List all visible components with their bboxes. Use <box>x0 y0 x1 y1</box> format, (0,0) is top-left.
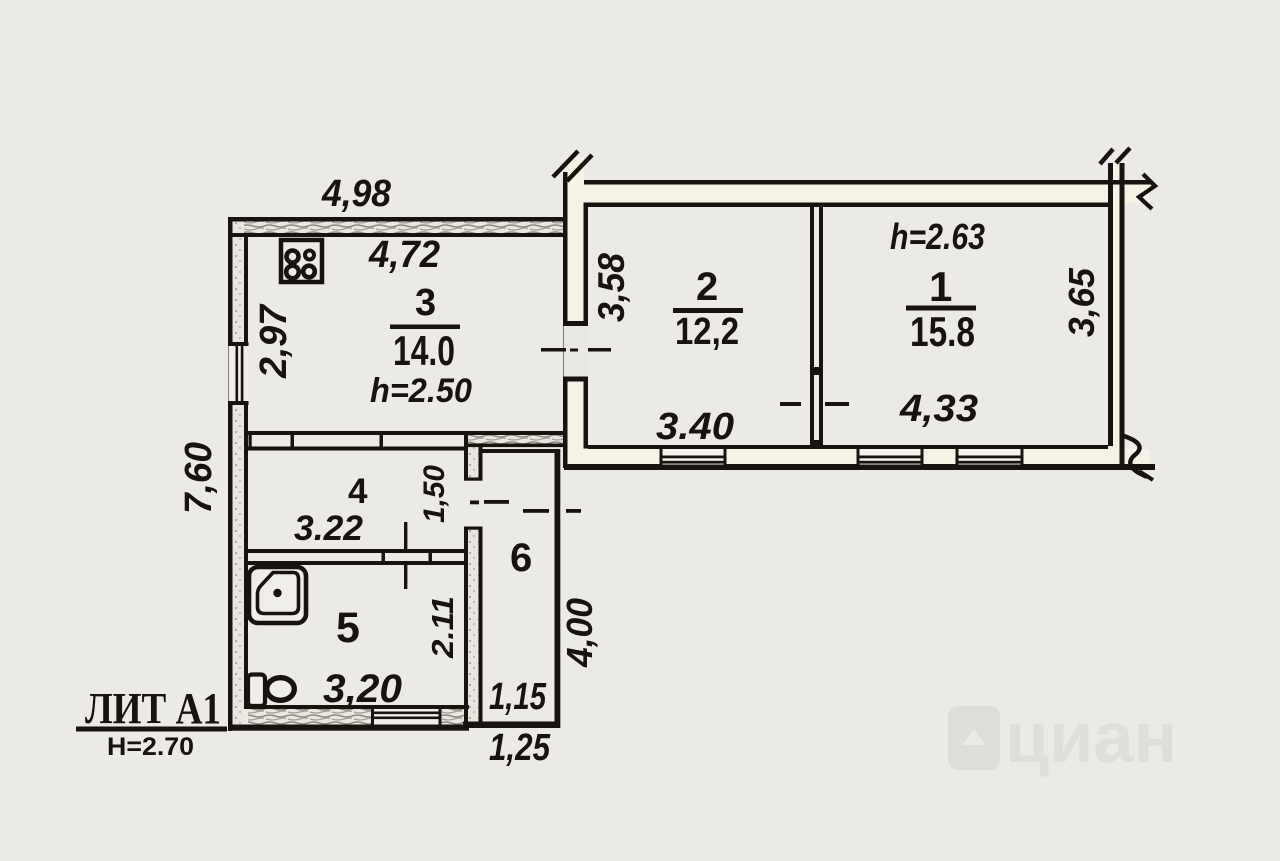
room 6 left wall fill <box>467 434 479 724</box>
bottom wall window white <box>373 709 441 725</box>
svg-text:3.40: 3.40 <box>656 406 734 448</box>
section line x405 lower <box>404 565 407 589</box>
divider 3/4 hatched right part fill <box>466 435 564 444</box>
svg-text:3: 3 <box>415 282 436 324</box>
bottom wall outer line <box>564 464 1155 470</box>
divider 3/4 tick c <box>380 431 384 450</box>
bottom wall outer end tick <box>1139 471 1153 480</box>
room 6 left wall right line lower <box>479 529 483 723</box>
divider 4/5 tick b <box>429 549 433 565</box>
window in left wall <box>229 342 249 405</box>
divider 3/4 tick b <box>291 431 295 450</box>
dash line room6 c <box>566 509 581 513</box>
room 6 bottom line <box>463 722 560 729</box>
top wall inner line <box>232 233 563 237</box>
svg-text:15.8: 15.8 <box>910 308 975 355</box>
room 6 door opening white <box>464 481 483 527</box>
svg-text:h=2.50: h=2.50 <box>370 372 472 410</box>
svg-text:6: 6 <box>510 536 532 580</box>
window in left wall <box>564 321 589 381</box>
svg-text:12,2: 12,2 <box>675 311 739 353</box>
svg-text:3,20: 3,20 <box>323 667 402 711</box>
partition rooms 1/2 right line <box>819 206 823 449</box>
right wall top breaks <box>1100 149 1113 164</box>
left wall outer line <box>563 172 568 468</box>
room 2 fraction line <box>673 308 743 313</box>
svg-text:7,60: 7,60 <box>178 442 220 514</box>
bottom-right break zigzag <box>1124 436 1147 477</box>
bottom wall window tick right <box>439 709 442 725</box>
svg-text:3,58: 3,58 <box>591 253 632 322</box>
top wall cream fill <box>584 184 1150 203</box>
svg-text:4,00: 4,00 <box>559 598 600 668</box>
left wall cream fill <box>567 157 584 468</box>
svg-text:2: 2 <box>696 265 718 309</box>
partition rooms 1/2 left line <box>810 206 814 449</box>
room 1 fraction line <box>906 306 976 311</box>
svg-text:4,98: 4,98 <box>321 173 392 215</box>
dash line room6 b <box>523 509 549 513</box>
bottom wall fill (room 5) <box>248 709 469 725</box>
svg-text:1: 1 <box>929 263 952 310</box>
svg-text:1,25: 1,25 <box>489 727 551 769</box>
partition door dash right <box>825 402 849 406</box>
section line x405 upper <box>404 522 407 549</box>
room 6 top line <box>480 449 560 453</box>
bottom wall inner line <box>244 705 469 709</box>
dash line room6 a <box>484 500 509 504</box>
divider wall rooms 3/4 top line <box>248 431 564 435</box>
stove <box>281 240 322 282</box>
svg-text:циан: циан <box>1005 698 1177 778</box>
room 6 left wall left line lower <box>464 529 468 726</box>
svg-text:14.0: 14.0 <box>393 327 455 374</box>
bottom wall window line 1 <box>373 712 441 715</box>
svg-text:3.22: 3.22 <box>294 509 364 548</box>
bottom wall inner line <box>588 445 1108 449</box>
toilet tank <box>248 675 265 707</box>
room 6 left wall left line upper <box>464 433 468 479</box>
svg-text:2.11: 2.11 <box>425 596 460 659</box>
litera underline <box>76 727 227 732</box>
bottom window 1 <box>661 449 726 465</box>
divider wall rooms 3/4 bottom line right <box>466 444 564 448</box>
room 3 fraction line <box>390 325 460 330</box>
room 6 door tick bottom <box>464 527 483 530</box>
svg-text:2,97: 2,97 <box>253 303 295 379</box>
top wall outer line <box>228 217 563 222</box>
room 6 left wall right line upper <box>479 447 483 479</box>
bottom wall cream fill <box>567 449 1150 465</box>
dash line room6 pre <box>470 501 479 505</box>
svg-text:5: 5 <box>336 604 360 652</box>
partition door dash left <box>780 402 801 406</box>
bottom wall outer line <box>228 725 469 731</box>
watermark cian <box>948 698 1177 778</box>
svg-text:4: 4 <box>348 472 368 511</box>
bottom wall window line 2 <box>373 717 441 720</box>
svg-text:1,50: 1,50 <box>418 465 451 523</box>
bottom window 2 <box>858 449 923 465</box>
partition junction fill b <box>810 440 823 449</box>
top wall fill (room 3) <box>232 221 563 233</box>
right wall cream fill <box>1113 163 1120 465</box>
top wall inner line <box>588 203 1108 208</box>
svg-text:h=2.63: h=2.63 <box>890 216 985 257</box>
partition junction fill a <box>810 367 823 375</box>
top wall outer line <box>584 180 1150 185</box>
svg-text:4,72: 4,72 <box>368 234 440 276</box>
room 6 door tick top <box>464 478 483 481</box>
svg-text:4,33: 4,33 <box>899 388 978 430</box>
svg-text:ЛИТ А1: ЛИТ А1 <box>85 684 221 733</box>
left wall inner line <box>584 203 589 449</box>
divider 3/4 tick a <box>249 431 252 450</box>
left wall fill <box>233 221 245 725</box>
top wall right end zigzag <box>1139 174 1155 209</box>
divider wall rooms 4/5 bottom line <box>248 561 464 565</box>
left wall top break <box>553 151 578 177</box>
left wall outer line <box>228 217 233 731</box>
dash-dot line 3,58 <box>541 348 566 352</box>
divider wall rooms 3/4 bottom line left <box>248 447 466 451</box>
divider 4/5 tick a <box>382 549 386 565</box>
bottom wall window tick left <box>371 709 374 725</box>
room 6 right wall <box>555 449 561 728</box>
right wall left line <box>1108 163 1113 446</box>
right wall right line <box>1120 163 1125 465</box>
svg-text:1,15: 1,15 <box>489 676 547 718</box>
sink <box>249 567 306 623</box>
svg-text:Н=2.70: Н=2.70 <box>107 733 194 761</box>
bottom window 3 <box>957 449 1023 465</box>
left wall inner line <box>244 233 248 709</box>
divider wall rooms 4/5 top line <box>248 549 464 553</box>
svg-text:3,65: 3,65 <box>1061 267 1102 337</box>
toilet bowl <box>267 678 295 701</box>
